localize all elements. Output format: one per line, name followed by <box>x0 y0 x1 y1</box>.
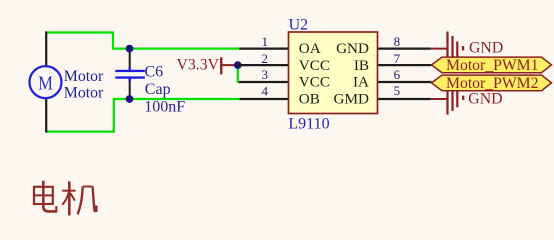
capacitor C6 bottom plate <box>115 76 145 78</box>
svg-text:V3.3V: V3.3V <box>176 57 219 74</box>
wire pin7 <box>378 64 432 66</box>
svg-text:7: 7 <box>394 51 401 66</box>
svg-text:Cap: Cap <box>145 81 171 98</box>
wire capacitor bottom lead <box>129 81 131 99</box>
svg-text:M: M <box>38 73 53 95</box>
capacitor C6 top plate <box>115 70 145 72</box>
svg-text:Motor: Motor <box>64 85 104 102</box>
svg-text:VCC: VCC <box>299 57 330 74</box>
svg-text:IB: IB <box>354 57 369 74</box>
svg-text:GND: GND <box>468 90 502 107</box>
wire capacitor top lead <box>129 49 131 68</box>
ground symbol bottom bar3 <box>456 91 458 108</box>
svg-text:C6: C6 <box>145 63 164 80</box>
wire pin5 <box>378 98 431 100</box>
power port V3.3V stem wire <box>221 64 238 66</box>
svg-text:IA: IA <box>353 74 369 91</box>
wire V3.3V to pin3 <box>238 65 241 82</box>
svg-text:4: 4 <box>262 83 269 98</box>
wire motor top to pin 1 <box>46 33 239 49</box>
port Motor_PWM1 <box>432 57 552 73</box>
title text 电 (dian) drawn as strokes <box>34 181 57 213</box>
wire pin6 <box>378 81 432 83</box>
junction node at V3.3V <box>234 61 242 69</box>
svg-text:5: 5 <box>394 83 401 98</box>
svg-text:OB: OB <box>299 91 320 108</box>
ground symbol bottom dash <box>462 96 464 100</box>
ground symbol top bar2 <box>451 36 453 57</box>
ground symbol top dash <box>462 46 464 50</box>
svg-text:2: 2 <box>262 51 269 66</box>
motor "Motor" circle symbol <box>30 66 62 98</box>
svg-text:Motor_PWM2: Motor_PWM2 <box>446 75 539 92</box>
ground symbol bottom bar1 <box>446 91 448 115</box>
svg-text:GND: GND <box>336 40 369 57</box>
capacitor C6 bottom lead stub <box>128 79 130 82</box>
wire motor top lead <box>45 31 47 67</box>
svg-text:GND: GND <box>469 39 503 56</box>
svg-text:U2: U2 <box>289 16 309 33</box>
wire motor bottom lead <box>45 97 47 133</box>
ground symbol top bar3 <box>456 42 458 58</box>
power port V3.3V bar <box>220 57 222 74</box>
svg-text:Motor: Motor <box>64 68 104 85</box>
ground symbol top bar1 <box>446 32 448 58</box>
svg-text:1: 1 <box>262 34 269 49</box>
wire pin4 <box>240 98 289 100</box>
port Motor_PWM2 <box>432 75 552 91</box>
title text 机 (ji) drawn as strokes <box>62 181 96 215</box>
capacitor C6 top lead stub <box>128 67 130 70</box>
wire motor bottom to pin 4 <box>46 99 240 132</box>
svg-text:8: 8 <box>394 34 401 49</box>
IC U2 body <box>289 32 378 114</box>
wire pin8 to GND <box>431 48 448 50</box>
svg-text:GMD: GMD <box>334 91 369 108</box>
svg-text:OA: OA <box>299 40 321 57</box>
wire pin8 <box>378 47 431 49</box>
wire pin1 <box>239 47 288 49</box>
wire pin3 <box>239 81 289 83</box>
junction node at capacitor bottom <box>126 95 134 103</box>
svg-text:3: 3 <box>262 67 269 82</box>
wire pin2 <box>238 64 289 66</box>
ground symbol bottom bar2 <box>451 91 453 111</box>
svg-text:L9110: L9110 <box>288 115 329 132</box>
svg-text:100nF: 100nF <box>144 99 185 116</box>
svg-text:6: 6 <box>394 67 401 82</box>
junction node at capacitor top <box>126 45 134 53</box>
svg-text:Motor_PWM1: Motor_PWM1 <box>446 57 539 74</box>
svg-text:VCC: VCC <box>299 74 330 91</box>
wire pin5 to GND <box>431 98 448 100</box>
